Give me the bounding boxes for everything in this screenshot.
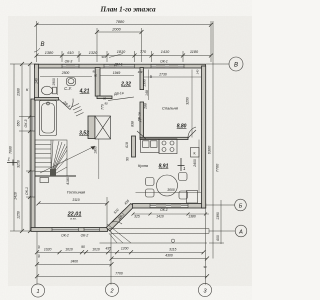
kitchen bottom dim line (133, 213, 209, 215)
interior walls (35, 68, 189, 157)
kitchen stove (159, 139, 177, 154)
rotated inner dims (35, 78, 198, 221)
axis circle Б (206, 199, 246, 211)
door ДВ-1в (to kitchen) (137, 131, 146, 139)
hallway bottom wall return (97, 96, 112, 99)
stair bottom landing edge (35, 175, 76, 177)
stair newel dark block (50, 169, 56, 176)
dim 3000 (kitchen) (136, 192, 202, 194)
small appliance К (191, 148, 200, 158)
window ОК-1 (kitchen bottom wall) (150, 204, 188, 208)
bedroom door (188, 127, 196, 138)
toilet (42, 86, 57, 95)
left wall upper (35, 64, 39, 99)
axis circle 1 (bottom) (31, 284, 44, 297)
kitchen bottom wall (133, 204, 206, 209)
dim 3110 under Гостиная (39, 197, 108, 227)
dining table (157, 175, 178, 196)
left rotated dim texts (9, 88, 30, 219)
wash basin (67, 78, 76, 86)
left vertical dimension lines (10, 64, 36, 231)
left wall lower (31, 99, 35, 231)
room 3.53 right wall (88, 116, 95, 139)
bottom dimension rows (37, 208, 207, 285)
axis circle 2 (bottom) (105, 283, 118, 296)
bottom row ticks (35, 250, 209, 278)
diagonal entrance wall (106, 204, 134, 231)
fridge bottom right (187, 191, 198, 204)
top wall (35, 64, 206, 68)
entry steps marks near stair (72, 104, 84, 117)
right vertical extension lines (209, 21, 224, 259)
bedroom left wall upper (140, 68, 144, 90)
dim 1800 line (stair) (98, 139, 100, 179)
dim 3290 line (bedroom right) (191, 70, 193, 138)
dim 2400 line (kitchen right) (198, 140, 200, 193)
chimney block with X hatch (95, 116, 111, 139)
window ОК-1 (left wall) (31, 171, 34, 197)
door ДВ-1а (hallway) (108, 97, 134, 101)
entrance door ДВ-1 on diagonal wall (112, 210, 124, 224)
winder treads fanning (51, 140, 53, 176)
dimension line 7880 (top row 1) (37, 24, 212, 26)
top small dim texts (61, 60, 196, 238)
dim 1949 (hall top) (100, 75, 134, 77)
window/door ДМ-1 (top wall) (104, 65, 135, 68)
kitchen sink unit (141, 139, 160, 153)
section mark 1 (right, in kitchen) (178, 158, 185, 171)
dim 2730 (bedroom top) (144, 76, 202, 78)
stair direction line (40, 146, 95, 173)
window ОК-3 (top wall) (62, 65, 79, 68)
top dimension texts (45, 20, 199, 55)
right wall (202, 66, 206, 208)
small 90 dims (37, 55, 207, 269)
windows ОК-2 (bottom wall) (52, 228, 100, 231)
bedroom left wall lower (140, 102, 144, 138)
dimension chain line (top row 3) (37, 55, 212, 57)
bathroom bottom wall (35, 98, 59, 101)
section mark 1 (left) (7, 160, 17, 166)
dim 1900 line (bathroom) (57, 78, 59, 95)
dim 2500 (С.У.) (40, 76, 92, 78)
axis circle В (206, 57, 243, 71)
radiator below stair (40, 178, 49, 183)
window ОК-3 (left wall) (31, 117, 34, 132)
dim 1390 line (bedroom left) (148, 70, 150, 101)
paper background (0, 0, 252, 300)
hallway left structural wall (95, 68, 100, 97)
axis circle 3 (bottom) (198, 283, 211, 296)
kitchen left wall stub (132, 136, 136, 157)
door ДВ-3 (bathroom to hall 3.53) (59, 99, 73, 110)
chairs (146, 173, 188, 200)
bathtub (40, 101, 57, 136)
tick marks top chain (35, 23, 214, 58)
bedroom bottom wall (140, 137, 188, 139)
axis circle А (209, 225, 247, 237)
dimension line 2000 (top row 2) (97, 31, 142, 33)
left dim ticks (20, 62, 32, 233)
bottom wall living room (31, 228, 108, 232)
window ОК-1 (top wall, bedroom) (151, 65, 184, 68)
